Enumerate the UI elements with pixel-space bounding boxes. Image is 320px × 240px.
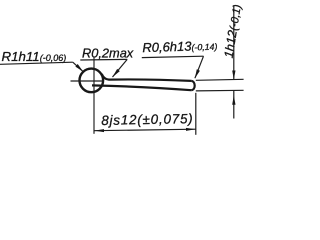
arrowhead left of horizontal dimension [94, 129, 104, 132]
extension line top right [196, 79, 244, 80]
svg-text:R1h11(-0,06): R1h11(-0,06) [2, 49, 67, 64]
arrowhead of R1h11 leader [75, 64, 83, 72]
leader line to end cap [195, 56, 204, 78]
leader line to bead [73, 62, 83, 71]
arrowhead right of horizontal dimension [186, 128, 196, 131]
bead circle R1 of rolled edge profile [80, 69, 104, 93]
leader shelf for R0,6h13 [142, 56, 204, 57]
horizontal dimension line 8js12 [94, 129, 196, 131]
leader shelf for R0,2max [80, 58, 127, 61]
svg-text:1h12(-0,1): 1h12(-0,1) [222, 3, 244, 59]
extension line below right end [195, 93, 197, 135]
profile bottom line [92, 85, 191, 90]
vertical dimension line 1h12 [233, 6, 235, 119]
svg-text:8js12(±0,075): 8js12(±0,075) [101, 111, 193, 128]
arrowhead of R0,6h13 leader [195, 69, 200, 78]
arrowhead down at top extension [232, 71, 235, 80]
leader line to fillet [113, 59, 128, 77]
profile top line with R0.2 fillet [102, 74, 191, 81]
leader shelf for R1h11 [0, 62, 73, 64]
arrowhead of R0,2max leader [112, 69, 120, 77]
rounded right end cap R0.6 [191, 81, 194, 90]
vertical centre / extension line through bead [93, 58, 95, 134]
svg-text:R0,6h13(-0,14): R0,6h13(-0,14) [142, 38, 218, 56]
horizontal centre line of bead [71, 80, 104, 82]
arrowhead up below bottom extension [232, 95, 235, 105]
extension line bottom right [196, 89, 244, 92]
svg-text:R0,2max: R0,2max [82, 45, 134, 60]
